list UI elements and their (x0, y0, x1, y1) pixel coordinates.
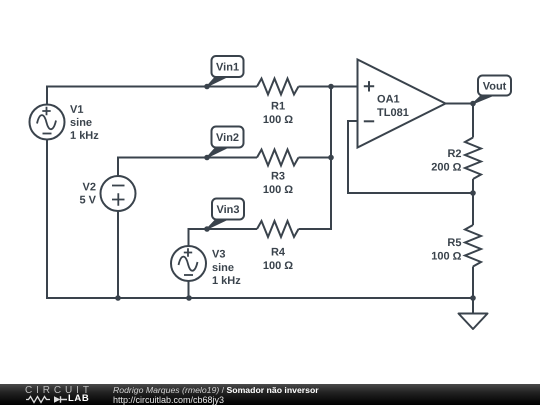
svg-text:100 Ω: 100 Ω (263, 260, 293, 272)
svg-text:R5: R5 (447, 237, 461, 249)
svg-text:Vout: Vout (483, 81, 507, 93)
svg-text:5 V: 5 V (79, 194, 96, 206)
svg-text:1 kHz: 1 kHz (70, 130, 99, 142)
svg-text:TL081: TL081 (377, 107, 409, 119)
svg-text:100 Ω: 100 Ω (263, 114, 293, 126)
svg-text:Vin3: Vin3 (216, 204, 239, 216)
svg-text:V1: V1 (70, 104, 83, 116)
svg-text:R1: R1 (271, 101, 285, 113)
svg-text:100 Ω: 100 Ω (263, 184, 293, 196)
svg-text:R3: R3 (271, 171, 285, 183)
svg-text:1 kHz: 1 kHz (212, 275, 241, 287)
svg-text:OA1: OA1 (377, 94, 400, 106)
svg-text:V3: V3 (212, 248, 225, 260)
svg-text:sine: sine (70, 117, 92, 129)
svg-text:200 Ω: 200 Ω (431, 162, 461, 174)
svg-text:100 Ω: 100 Ω (431, 251, 461, 263)
svg-text:R4: R4 (271, 247, 286, 259)
svg-text:sine: sine (212, 262, 234, 274)
svg-text:Vin2: Vin2 (216, 132, 239, 144)
svg-text:V2: V2 (83, 181, 96, 193)
svg-text:R2: R2 (447, 148, 461, 160)
svg-text:Vin1: Vin1 (216, 61, 239, 73)
